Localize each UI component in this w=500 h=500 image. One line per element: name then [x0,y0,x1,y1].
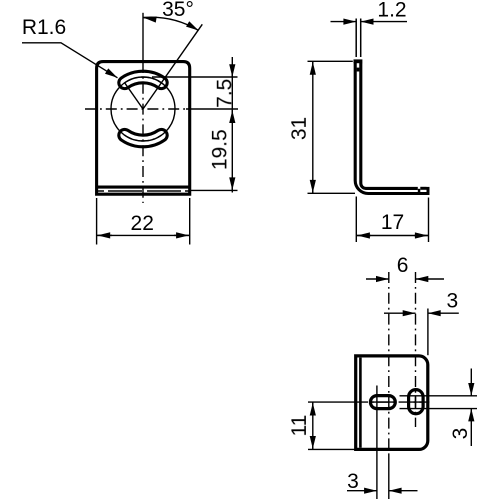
bottom 3 right arrow [389,490,418,492]
11 top arrow [312,403,314,415]
svg-text:11: 11 [288,415,311,437]
right 3 top arrow [470,369,472,396]
22 right arrow [174,234,189,236]
centerline extension to dimension line [186,108,238,110]
svg-text:17: 17 [381,211,404,234]
centerline solid crossing slots [371,401,423,403]
svg-text:6: 6 [397,254,409,277]
flange top near end [420,187,426,190]
flange end cap [427,187,430,195]
31 top arrow [312,62,314,75]
6 right arrow [416,278,445,280]
extension lines right 3 [400,396,478,409]
35 deg arc left arrow [144,18,156,20]
6 left arrow [366,278,389,280]
slot mark in leg [357,68,360,72]
svg-text:3: 3 [347,470,359,493]
horizontal centerline extension (11 dim) [308,401,357,403]
svg-text:3: 3 [449,428,472,440]
R1.6 leader line with arrow [22,43,118,78]
bend line (front view bottom) [97,186,190,189]
arrow below 7.5 / top of 19.5 [231,110,233,122]
lower slot arc centerline [125,135,162,141]
leg outer wall + outer bend + flange bottom [355,63,428,194]
1.2 extension lines [356,19,361,58]
extension line body right edge [427,309,429,356]
right slot angle line (extended for 35 deg dimension) [143,24,202,109]
22 dim extension lines [97,198,190,245]
top 3 left arrow [384,312,416,314]
arrow above 7.5 [231,65,233,78]
hidden bend tangent line (thin dashed) [96,190,191,192]
11 dimension line [312,402,314,449]
17 left arrow [357,235,371,237]
bolt circle (thin) [111,77,175,141]
bracket body outline [97,62,190,195]
arrow bottom of 19.5 [231,178,233,190]
vertical centerline left [388,272,390,455]
leg top cap [354,59,363,63]
slot mark in flange [418,189,421,193]
7.5 text [213,79,236,108]
svg-text:3: 3 [447,290,459,313]
35 deg dimension arc [144,17,199,30]
top 3 right arrow [428,312,459,314]
17 extension lines [356,197,428,243]
horizontal centerline [357,401,430,403]
left slot angle line [125,83,143,109]
19.5 text [209,129,232,170]
body outline [356,356,428,450]
right 3 bottom arrow [470,409,472,446]
leg inner wall + inner bend + flange top [361,63,418,188]
31 dimension line [312,61,314,193]
extension line bottom (19.5 reference) [191,189,238,191]
horizontal slot [370,396,395,409]
svg-text:31: 31 [288,117,311,140]
horizontal centerline [85,108,186,110]
extension line top slot apex [152,76,238,78]
svg-text:7.5: 7.5 [213,79,236,108]
17 dimension line [356,235,428,237]
22 dimension line [97,234,190,236]
svg-text:1.2: 1.2 [377,0,406,22]
vertical slot [409,390,424,414]
right dimension line [231,57,233,193]
upper arc slot [119,71,167,88]
vertical centerline right [415,272,417,427]
lower arc slot [119,129,167,146]
svg-text:22: 22 [131,212,154,235]
22 left arrow [97,234,112,236]
1.2 right arrow [361,21,407,23]
upper slot arc centerline [125,77,162,83]
31 bottom arrow [312,180,314,193]
right 3 text [449,428,472,440]
17 right arrow [414,235,428,237]
bend line [359,358,362,448]
svg-text:35°: 35° [162,0,194,21]
31 extension lines [308,61,356,193]
extension line 11 bottom [308,448,362,450]
extension line slot left arc center [376,386,378,500]
1.2 left arrow [331,21,357,23]
vertical centerline [142,13,144,62]
11 text [288,415,311,437]
bottom 3 left arrow [347,490,377,492]
svg-text:19.5: 19.5 [209,129,232,170]
svg-text:R1.6: R1.6 [22,16,66,39]
31 text [288,117,311,140]
11 bottom arrow [312,437,314,449]
